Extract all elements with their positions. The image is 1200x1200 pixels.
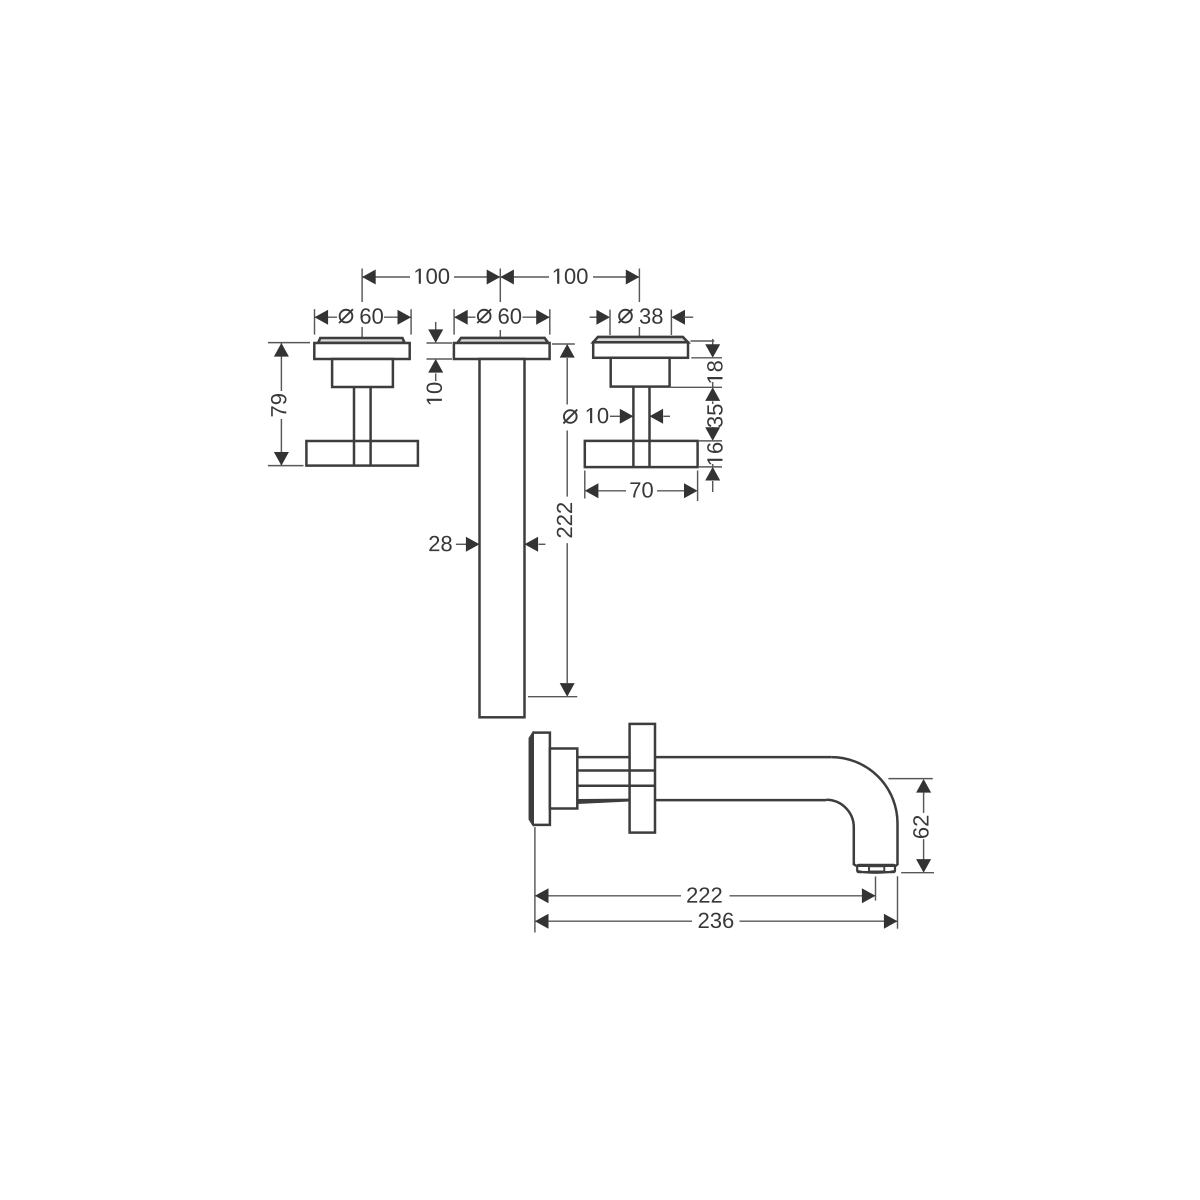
centerline left handle (361, 327, 363, 338)
left handle cross bar (306, 441, 418, 466)
spout pipe top line (577, 756, 629, 759)
spout pipe bottom line (655, 799, 826, 802)
left handle body (332, 359, 393, 387)
left handle stem (353, 387, 356, 465)
dimension 222 pipe length (552, 343, 575, 345)
dimension 236 overall length (897, 876, 899, 929)
right handle stem (632, 387, 635, 467)
right handle body (611, 358, 670, 387)
dimension 18 body height (691, 340, 715, 342)
centerline right handle (638, 327, 640, 337)
dimension 62 spout drop (888, 778, 932, 780)
dimension D60 left handle escutcheon (314, 309, 316, 334)
dimension 100 right spacing (499, 269, 501, 303)
right handle cross bar (585, 441, 698, 467)
spout outer bend (831, 757, 897, 866)
wall escutcheon side view (530, 733, 550, 825)
dimension 100 left spacing (361, 269, 363, 303)
spout escutcheon flange (454, 343, 550, 359)
centerline spout (499, 330, 501, 338)
dimension 10 escutcheon thickness (435, 322, 437, 330)
dimension 70 cross bar width (584, 471, 586, 499)
escutcheon step (550, 749, 577, 809)
spout pipe inner lines (577, 769, 655, 772)
spout escutcheon top plate (457, 338, 548, 343)
dimension 28 pipe width (429, 536, 451, 552)
dimension D10 stem (564, 410, 577, 423)
left handle escutcheon flange (314, 343, 409, 359)
right handle escutcheon top plate (593, 337, 688, 342)
spout inner bend (826, 800, 857, 867)
dimension D60 spout escutcheon (453, 309, 455, 334)
spout cross ornament vertical bar (630, 724, 655, 833)
dimension 79 handle height (268, 342, 310, 344)
right handle escutcheon flange (593, 342, 688, 358)
dimension 222 spout reach (534, 827, 536, 933)
dimension 16 cross bar height (707, 443, 723, 464)
spout pipe front view (480, 359, 525, 717)
dimension 35 stem height (671, 386, 722, 388)
dimension D38 right handle (609, 310, 611, 335)
aerator (857, 865, 895, 872)
left handle escutcheon top plate (318, 338, 405, 343)
